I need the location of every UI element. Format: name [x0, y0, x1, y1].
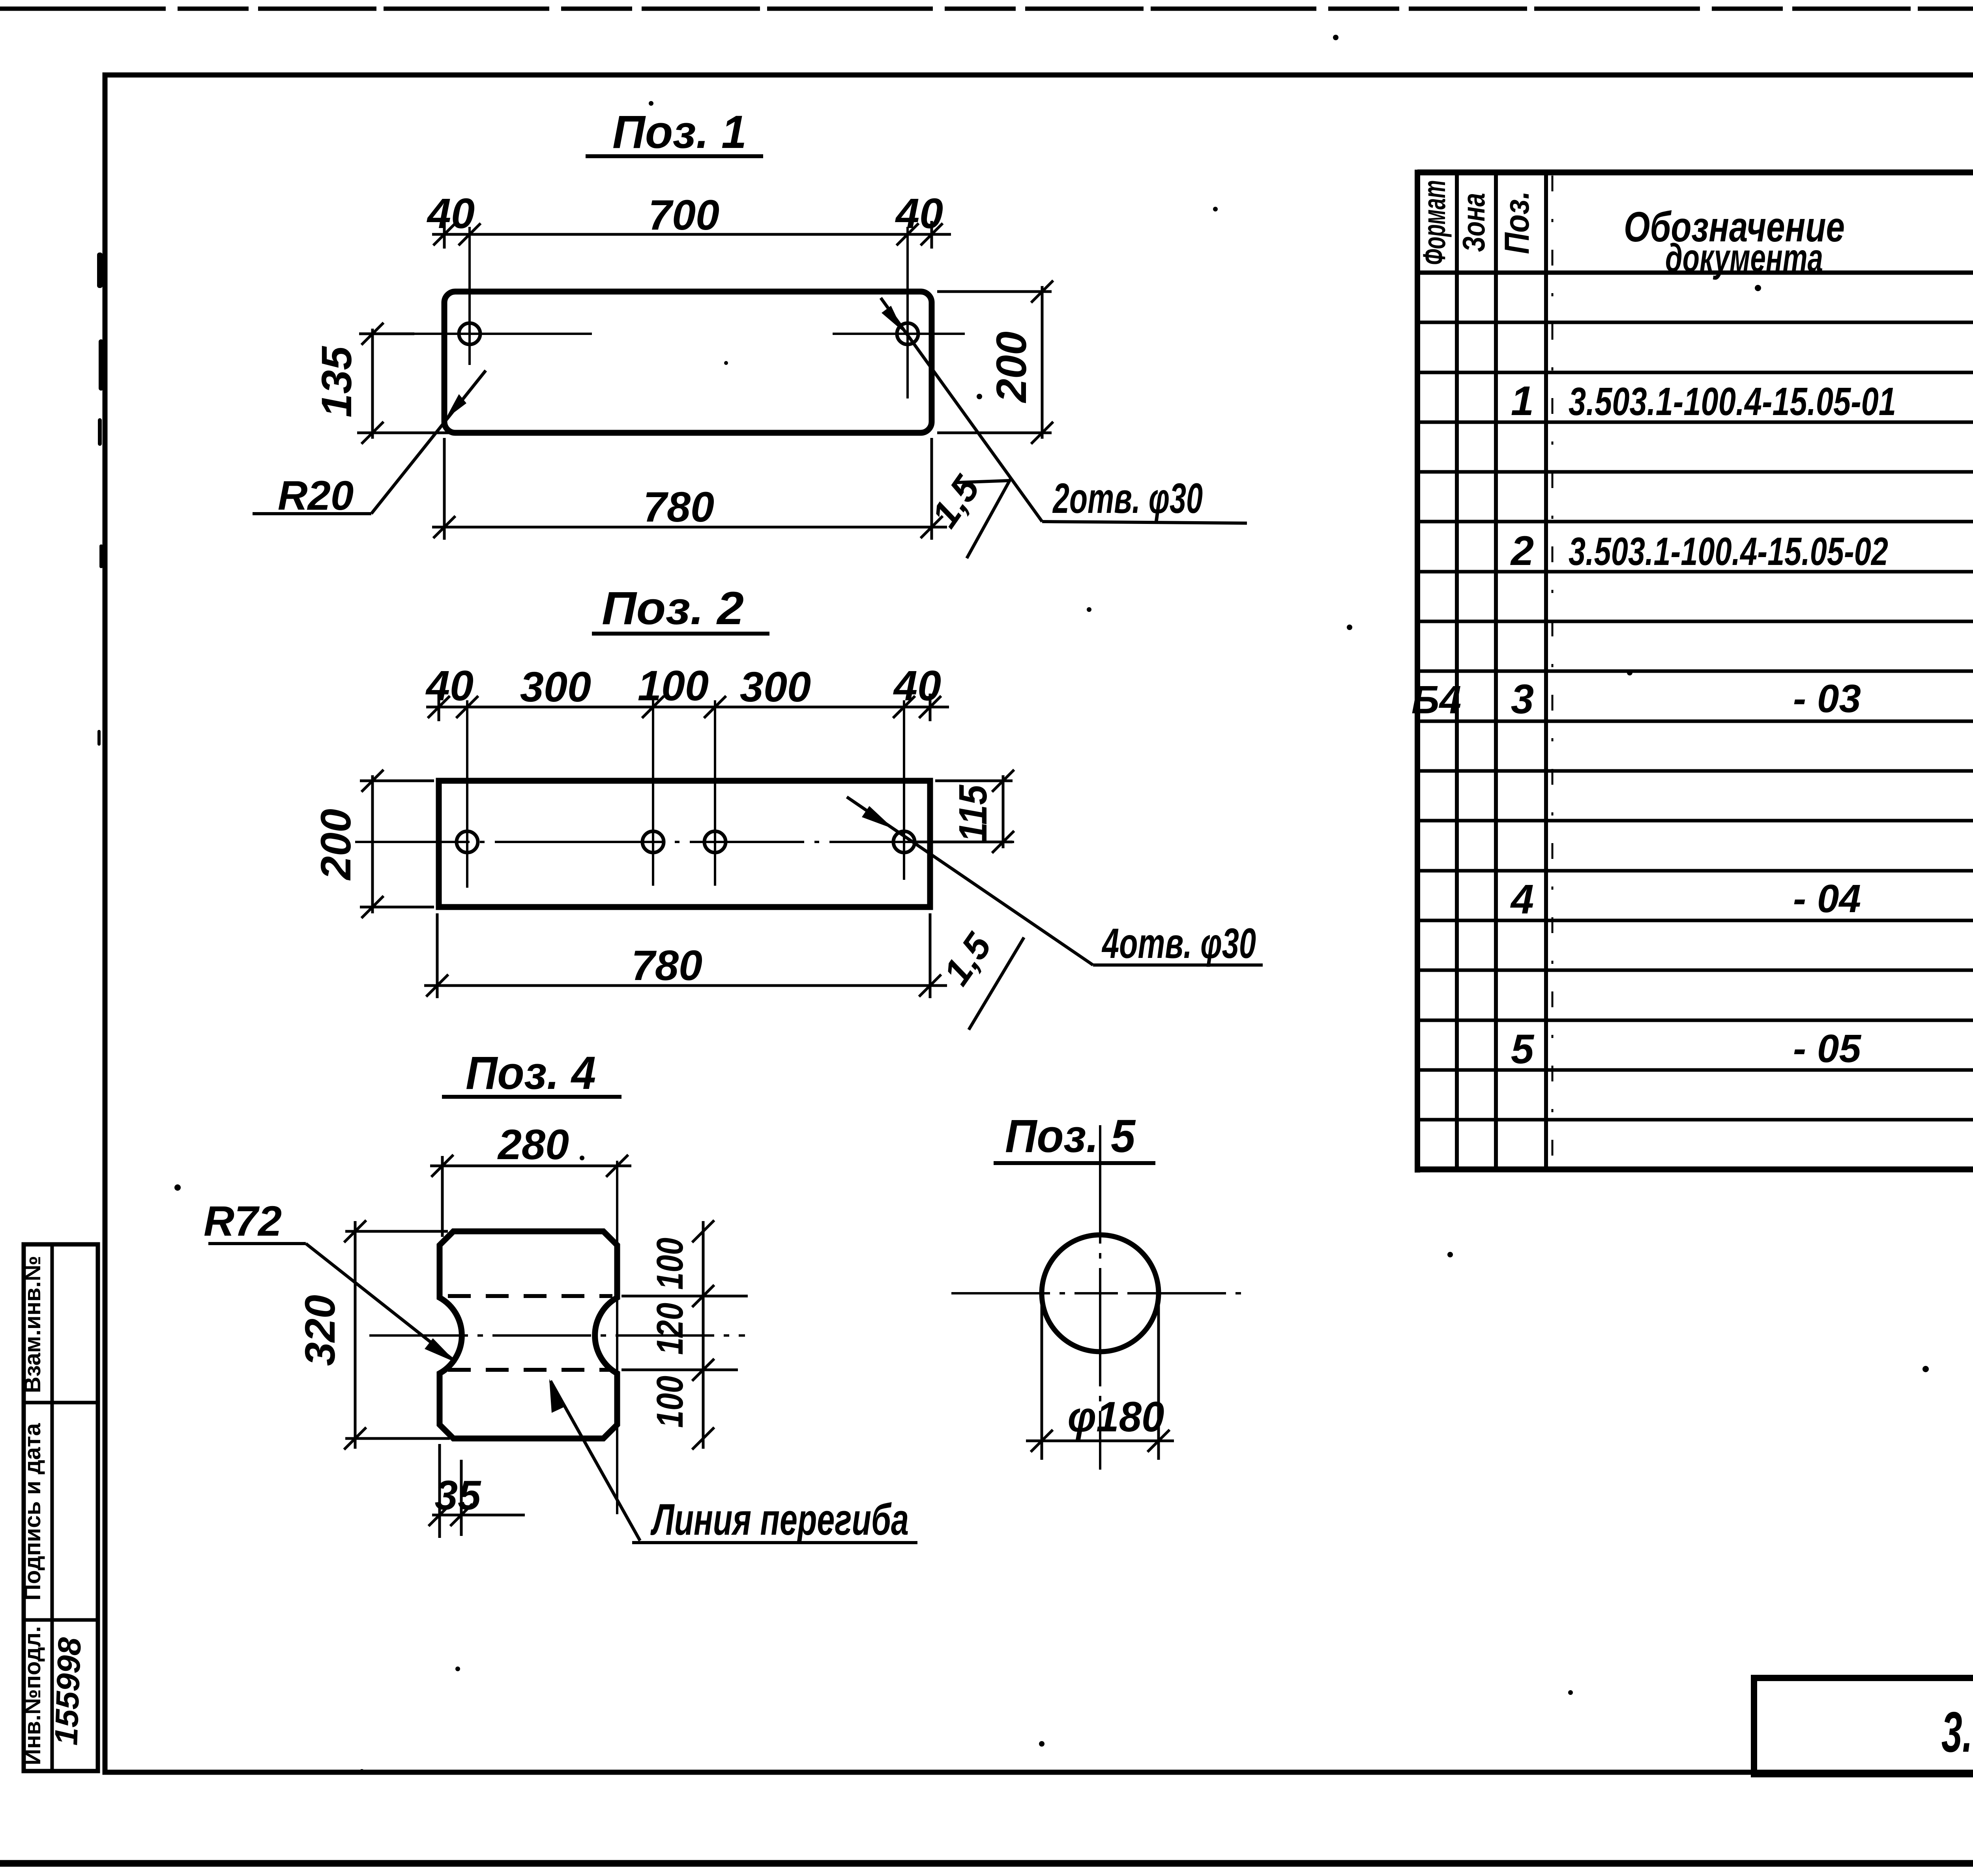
- table row 3: Труба: [1411, 676, 1973, 723]
- left stamp cell divider 2: [24, 1618, 98, 1622]
- svg-text:135: 135: [313, 346, 360, 417]
- Поз.1 hole left centerlines: [408, 227, 592, 365]
- table row 4: Диафрагма: [1510, 876, 1973, 924]
- svg-text:Поз. 1: Поз. 1: [612, 106, 747, 158]
- svg-text:5: 5: [1511, 1026, 1535, 1072]
- Поз.2 dimension 780 bottom: [424, 913, 947, 998]
- specification table outer border: [1417, 170, 1973, 1173]
- Поз.2 dimension 40-300-100-300-40 top: [426, 694, 949, 721]
- Поз.2 dimension 115 right: [915, 770, 1014, 853]
- svg-text:3.503.1-100.4-15.05-01: 3.503.1-100.4-15.05-01: [1569, 380, 1896, 424]
- left stamp cell divider 1: [24, 1401, 98, 1405]
- svg-text:2отв. φ30: 2отв. φ30: [1052, 474, 1203, 522]
- Поз.2 holes: [457, 831, 915, 853]
- svg-text:40: 40: [895, 189, 943, 237]
- svg-text:3: 3: [1511, 676, 1534, 722]
- Поз.1 chamfer mark 1,5x45: [923, 468, 1011, 558]
- svg-text:Поз. 4: Поз. 4: [466, 1047, 596, 1099]
- svg-text:200: 200: [312, 809, 359, 881]
- svg-text:780: 780: [643, 483, 714, 531]
- Поз.5 horizontal centerline: [951, 1292, 1246, 1294]
- svg-text:300: 300: [520, 663, 591, 711]
- Поз.4 right edge extension line: [616, 1161, 618, 1514]
- Поз.4 dimension 280 top: [430, 1155, 631, 1237]
- svg-text:Инв.№подл.: Инв.№подл.: [20, 1626, 45, 1766]
- svg-text:- 04: - 04: [1793, 877, 1861, 921]
- svg-text:40: 40: [425, 662, 474, 709]
- Поз.1 callout R20: [253, 370, 486, 519]
- svg-text:100: 100: [649, 1238, 691, 1290]
- Поз.2 dimension 200 left: [360, 770, 434, 918]
- svg-text:35: 35: [435, 1472, 481, 1519]
- Поз.2 callout 4отв. ф30 with leader: [847, 797, 1263, 967]
- svg-text:155998: 155998: [48, 1637, 88, 1746]
- svg-text:4отв. φ30: 4отв. φ30: [1102, 919, 1256, 967]
- left stamp outer box: [24, 1244, 98, 1771]
- Поз.5 vertical centerline: [1099, 1125, 1101, 1470]
- svg-text:Поз.: Поз.: [1497, 191, 1536, 254]
- Поз.1 hole right: [897, 323, 918, 344]
- svg-text:100: 100: [638, 662, 709, 709]
- Поз.4 horizontal centerline: [369, 1334, 745, 1337]
- Поз.2 chamfer mark 1,5x45: [935, 926, 1024, 1030]
- svg-text:Поз. 2: Поз. 2: [602, 582, 744, 634]
- specification table header bottom line: [1417, 271, 1973, 275]
- Поз.4 callout Линия перегиба: [549, 1379, 917, 1544]
- svg-text:φ180: φ180: [1068, 1393, 1164, 1440]
- Поз.5 dimension ф180: [1026, 1302, 1174, 1460]
- Поз.1 hole left: [459, 323, 480, 344]
- svg-text:Взам.инв.№: Взам.инв.№: [20, 1256, 45, 1393]
- svg-text:3.503.1-100.4-15.05-02: 3.503.1-100.4-15.05-02: [1569, 529, 1888, 574]
- Поз.4 fold dashed line upper: [448, 1294, 612, 1298]
- Поз.1 dimension 135 left: [357, 323, 450, 444]
- title block outer box: [1754, 1678, 1973, 1774]
- Поз.1 dimension 40-700-40 top: [432, 221, 951, 249]
- Поз.1 dimension 200 right: [937, 281, 1053, 444]
- svg-text:документа: документа: [1665, 236, 1823, 280]
- svg-text:280: 280: [497, 1120, 569, 1168]
- specification table dash-dot line right of Поз column: [1552, 176, 1554, 1168]
- Поз.4 dimension 35 bottom: [429, 1444, 525, 1538]
- svg-text:115: 115: [951, 784, 995, 842]
- svg-text:4: 4: [1510, 876, 1534, 922]
- svg-text:Б4: Б4: [1411, 678, 1461, 722]
- svg-text:100: 100: [649, 1376, 691, 1428]
- Поз.1 title: [586, 106, 763, 158]
- svg-text:780: 780: [631, 941, 702, 989]
- svg-text:Поз. 5: Поз. 5: [1005, 1110, 1136, 1162]
- svg-text:Зона: Зона: [1456, 193, 1491, 252]
- Поз.4 title: [442, 1047, 621, 1099]
- svg-text:R20: R20: [278, 473, 354, 519]
- svg-text:1: 1: [1511, 378, 1534, 424]
- Поз.4 fold dashed line lower: [448, 1368, 612, 1372]
- svg-text:- 03: - 03: [1793, 677, 1861, 721]
- specification table column lines: [1457, 172, 1973, 1169]
- table header Обозначение документа: [1624, 203, 1845, 280]
- svg-text:R72: R72: [204, 1197, 282, 1245]
- Поз.4 part outline with chamfers and R72 notches: [440, 1231, 617, 1438]
- table row 1: Опорный лист: [1511, 378, 1973, 424]
- Поз.4 dimension 320 left: [344, 1220, 450, 1450]
- table row 5: Крышка: [1511, 1026, 1973, 1074]
- svg-text:2: 2: [1510, 528, 1534, 574]
- page top edge line: [0, 7, 1973, 11]
- Поз.1 plate outline: [444, 292, 932, 433]
- Поз.1 hole right centerlines: [833, 227, 965, 398]
- svg-text:40: 40: [893, 662, 941, 709]
- svg-text:Подпись и дата: Подпись и дата: [20, 1423, 45, 1601]
- Поз.1 dimension 780 bottom: [432, 438, 947, 540]
- Поз.2 title: [592, 582, 769, 634]
- svg-text:200: 200: [987, 331, 1035, 403]
- Поз.2 horizontal centerline: [355, 841, 1022, 843]
- svg-text:- 05: - 05: [1793, 1027, 1862, 1071]
- Поз.2 plate outline: [439, 781, 930, 907]
- svg-text:320: 320: [296, 1295, 344, 1366]
- left stamp label column divider: [51, 1244, 54, 1771]
- Поз.4 callout R72: [204, 1197, 457, 1363]
- svg-text:Линия перегиба: Линия перегиба: [650, 1495, 909, 1544]
- specification table row lines: [1417, 322, 1973, 1120]
- Поз.2 hole vertical centerlines: [467, 700, 904, 888]
- scan blotches along left frame: [97, 253, 103, 746]
- Поз.1 callout 2отв. ф30 with leader: [881, 298, 1247, 523]
- svg-text:40: 40: [427, 189, 475, 237]
- svg-text:120: 120: [649, 1303, 691, 1355]
- Поз.5 title: [994, 1110, 1155, 1163]
- svg-text:Формат: Формат: [1417, 180, 1452, 265]
- svg-text:3.503.1-100.4-15.05.: 3.503.1-100.4-15.05.: [1941, 1700, 1973, 1764]
- svg-text:300: 300: [740, 663, 811, 711]
- Поз.4 dimensions 100-120-100 right: [621, 1220, 748, 1450]
- svg-text:700: 700: [648, 191, 719, 239]
- page bottom edge line: [0, 1860, 1973, 1867]
- table row 2: Ребро: [1510, 528, 1973, 574]
- Поз.5 circle: [1042, 1235, 1159, 1352]
